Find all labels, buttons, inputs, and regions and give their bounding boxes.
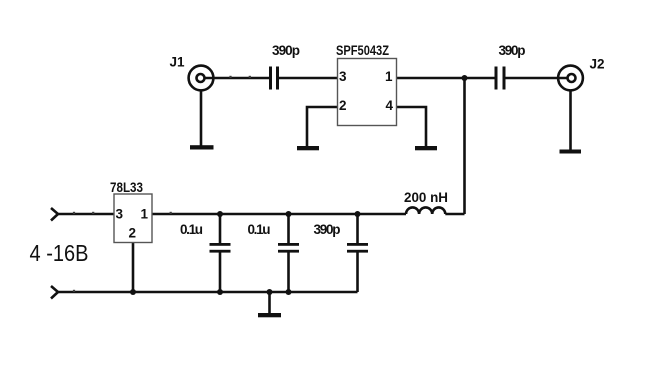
svg-text:1: 1: [140, 207, 148, 222]
capacitor C3 bottom lead: [219, 252, 222, 292]
op-amp U1 SPF5043Z body: [338, 59, 397, 126]
capacitor C4 plates 0.1u: [278, 243, 299, 246]
terminal input bottom: [51, 286, 58, 299]
junction ground bottom: [267, 289, 273, 295]
capacitor C2 plates 390p: [495, 67, 498, 90]
inductor L1 200 nH: [406, 207, 445, 214]
capacitor C4 top lead: [287, 214, 290, 244]
regulator U2 78L33 body: [114, 194, 152, 243]
svg-text:390p: 390p: [272, 43, 300, 58]
junction C4 top: [286, 211, 292, 217]
wire grid tick: [170, 212, 172, 214]
junction U2 pin 2 bottom: [130, 289, 136, 295]
junction C3 top: [217, 211, 223, 217]
svg-text:4 -16В: 4 -16В: [30, 240, 89, 266]
wire ground drop bottom: [268, 292, 271, 313]
svg-text:200 nH: 200 nH: [404, 190, 448, 205]
capacitor C3 top lead: [219, 214, 222, 244]
junction node A: [462, 75, 468, 81]
wire U1 pin 2 to ground: [307, 107, 337, 146]
capacitor C4 bottom lead: [287, 252, 290, 292]
wire U1 pin 1 to C2: [397, 77, 495, 80]
wire L1 to node A: [445, 213, 464, 216]
terminal input top: [51, 208, 58, 221]
junction C3 bottom: [217, 289, 223, 295]
wire grid tick: [73, 290, 75, 292]
svg-text:0.1u: 0.1u: [180, 222, 203, 237]
capacitor C5 plates 390p: [347, 243, 368, 246]
junction C4 bottom: [286, 289, 292, 295]
wire C1 to U1 pin 3: [279, 77, 337, 80]
ground under J2: [560, 150, 582, 154]
capacitor C3 plates 0.1u: [210, 243, 231, 246]
svg-text:1: 1: [385, 69, 393, 84]
capacitor C5 top lead: [356, 214, 359, 244]
svg-text:78L33: 78L33: [110, 180, 143, 195]
ground under U1 pin 2: [297, 146, 319, 150]
svg-text:0.1u: 0.1u: [248, 222, 271, 237]
ground under J1: [190, 145, 214, 149]
ground bottom rail: [258, 313, 281, 317]
capacitor C1 plates 390p: [269, 67, 272, 90]
svg-text:3: 3: [116, 207, 124, 222]
wire C2 to J2: [506, 77, 568, 80]
wire grid tick: [73, 212, 75, 214]
capacitor C5 bottom lead: [356, 252, 359, 292]
ground under U1 pin 4: [415, 146, 437, 150]
wire J2 to ground: [569, 91, 572, 151]
connector J1: [189, 66, 214, 91]
wire grid tick: [229, 76, 231, 78]
svg-text:4: 4: [385, 98, 393, 113]
wire J1 to C1: [205, 77, 270, 80]
junction C5 top: [355, 211, 361, 217]
svg-text:SPF5043Z: SPF5043Z: [336, 43, 389, 58]
wire input top to U2 pin 3: [58, 213, 114, 216]
svg-text:3: 3: [339, 69, 347, 84]
wire grid tick: [249, 76, 251, 78]
wire bottom rail: [58, 291, 358, 294]
connector J2: [558, 66, 583, 91]
svg-text:390p: 390p: [314, 222, 341, 237]
svg-text:J2: J2: [590, 57, 605, 72]
svg-text:2: 2: [129, 226, 137, 241]
wire node A vertical: [463, 78, 466, 214]
wire grid tick: [92, 212, 94, 214]
wire U2 pin 2 drop: [132, 243, 135, 293]
svg-text:J1: J1: [170, 55, 186, 70]
wire J1 to ground: [200, 91, 203, 147]
wire U2 pin 1 to L1: [152, 213, 406, 216]
svg-text:390p: 390p: [499, 43, 526, 58]
wire U1 pin 4 to ground: [397, 107, 426, 146]
svg-text:2: 2: [339, 98, 347, 113]
